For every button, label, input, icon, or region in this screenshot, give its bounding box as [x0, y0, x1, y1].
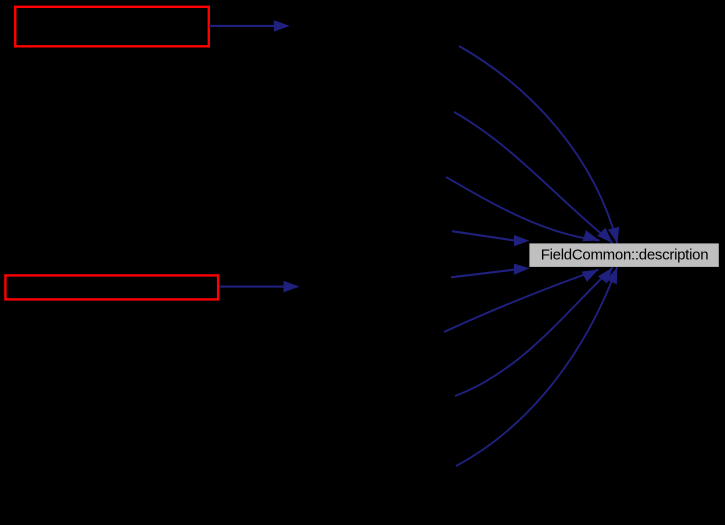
svg-text:FieldCommon::description: FieldCommon::description: [541, 247, 709, 264]
